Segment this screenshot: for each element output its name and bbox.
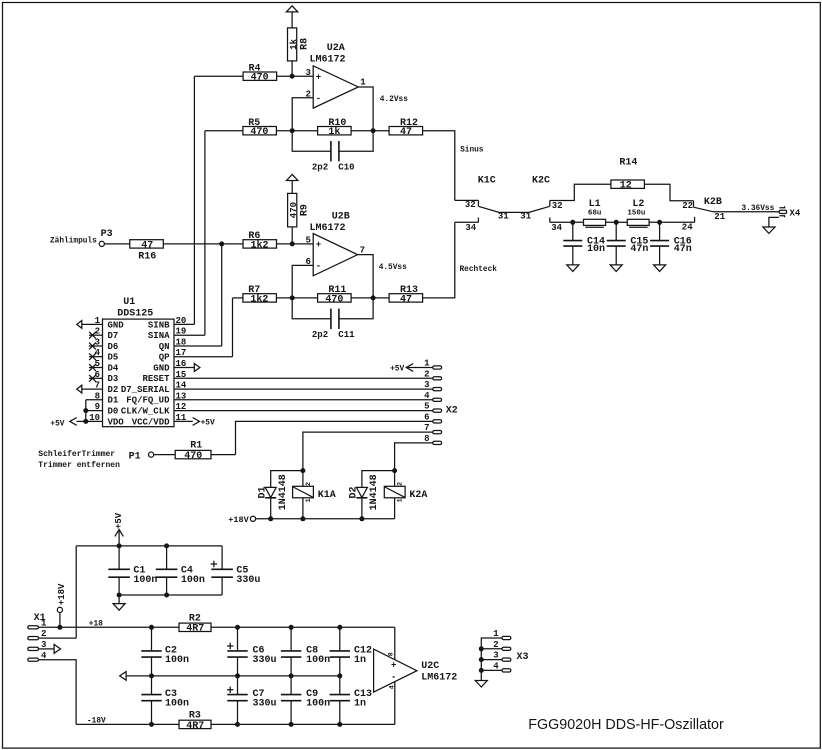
capacitor C11 with loop [292,298,373,340]
svg-text:-: - [391,672,396,682]
svg-text:3.36Vss: 3.36Vss [742,205,775,213]
node K1A rail [300,516,305,521]
node K2A top [392,468,397,473]
svg-text:100n: 100n [306,655,330,666]
capacitor C16 [650,222,692,265]
svg-text:QP: QP [159,353,170,363]
wire U2A output to R10 row [358,87,373,131]
svg-text:K2B: K2B [704,197,722,208]
svg-text:SINA: SINA [148,331,170,341]
svg-text:470: 470 [250,127,268,138]
svg-text:+18: +18 [89,621,103,629]
svg-text:34: 34 [551,223,562,233]
wire QN vertical [221,244,223,346]
wire QP vertical [232,298,234,357]
svg-text:32: 32 [465,200,476,210]
svg-text:330u: 330u [236,575,260,586]
U1 right pin numbers [176,316,187,423]
svg-text:5: 5 [424,402,429,412]
op-amp U2C [374,627,458,724]
svg-text:47n: 47n [630,244,648,255]
connector X3 [493,629,528,672]
svg-text:X3: X3 [517,652,529,663]
resistor R10 [318,118,390,138]
X2 pin7 wire to relay K1A [303,432,433,471]
svg-text:31: 31 [520,211,531,221]
node D1 rail [268,516,273,521]
svg-text:R1: R1 [190,441,202,452]
node C7 bottom [235,722,240,727]
diode D1 1N4148 [257,471,303,519]
+18 row [39,621,395,629]
ground C16 [654,265,666,272]
svg-text:D3: D3 [108,374,119,384]
U1 pin 2 stub nc [89,332,103,339]
wire R7 left from QP [233,297,243,299]
svg-text:CLK/W_CLK: CLK/W_CLK [121,407,170,417]
node R10/R12/C10 [371,128,376,133]
svg-text:R8: R8 [300,38,311,50]
inductor L1 [584,199,606,228]
node C1 rail [117,543,122,548]
svg-text:VDO: VDO [108,417,125,427]
svg-text:D5: D5 [108,353,119,363]
svg-text:4R7: 4R7 [186,624,204,635]
node C9 bottom [289,722,294,727]
svg-text:C10: C10 [338,162,354,172]
ground below C1 [113,595,125,610]
svg-text:P3: P3 [101,229,113,240]
svg-text:SINB: SINB [148,320,170,330]
svg-text:4.2Vss: 4.2Vss [380,96,408,104]
svg-text:470: 470 [184,451,202,462]
switch K2C [529,176,611,233]
svg-text:-: - [316,94,321,104]
svg-text:+: + [391,661,396,671]
svg-text:1k2: 1k2 [250,293,268,305]
svg-text:4: 4 [388,685,395,689]
node C4 rail [164,543,169,548]
resistor R14 [611,158,694,201]
terminal P1 [38,450,175,470]
U1 pin 3 stub nc [89,343,103,350]
svg-text:K2C: K2C [532,176,550,187]
svg-text:-: - [316,262,321,272]
svg-text:1: 1 [305,498,312,502]
svg-text:K1A: K1A [318,490,336,501]
svg-text:1k: 1k [289,38,299,49]
svg-text:330u: 330u [253,699,277,710]
node R7/C11/U2B- [290,295,295,300]
+5V up arrow at top rail [114,512,124,546]
-18V row [76,717,395,725]
svg-text:8: 8 [388,652,395,656]
node R11/R13/C11 [371,295,376,300]
node QN tap [219,241,224,246]
connector X4 [779,206,801,218]
wire R4 left from SINB [194,75,243,77]
svg-text:C11: C11 [338,330,355,340]
svg-text:R9: R9 [300,204,311,216]
resistor R12 [389,118,423,138]
svg-text:D0: D0 [108,407,119,417]
U1 pin 16 GND stub with right arrow [174,364,200,372]
wire +5V net to X2-6 [236,421,433,454]
svg-text:470: 470 [251,73,269,84]
svg-text:24: 24 [682,222,693,232]
node C3 bottom [149,722,154,727]
svg-text:1N4148: 1N4148 [278,474,289,510]
node C16 [657,220,662,225]
svg-text:4: 4 [424,391,430,401]
switch K1C [455,176,532,233]
svg-text:100n: 100n [306,699,330,710]
svg-text:7: 7 [360,245,365,255]
supply arrow VCC above R8 [286,6,297,28]
op-amp U2A [306,43,367,108]
node R6/R9/U2B+ [290,241,295,246]
svg-text:+: + [316,72,321,82]
X1 pin4 wire to -18V [39,660,77,725]
svg-text:+: + [316,240,321,250]
svg-text:10n: 10n [587,244,605,255]
svg-text:330u: 330u [253,655,277,666]
capacitor C5 polarized [211,546,261,595]
svg-text:QN: QN [159,342,170,352]
svg-text:X4: X4 [790,209,801,219]
svg-text:-18V: -18V [87,717,106,725]
svg-text:32: 32 [552,201,563,211]
relay coil K2A [384,471,427,519]
resistor R16 [130,240,243,263]
svg-text:+18V: +18V [57,583,67,605]
svg-text:GND: GND [153,363,170,373]
svg-text:2: 2 [305,482,312,486]
svg-text:34: 34 [465,223,476,233]
mid GND rail with left arrow [120,672,340,681]
svg-text:D1: D1 [108,396,119,406]
capacitor C12 [330,627,372,676]
svg-text:470: 470 [325,294,343,305]
+5V top rail [76,545,222,547]
U1 pin 12 CLK/W_CLK wire to X2-5 [174,410,433,412]
svg-text:1k: 1k [328,126,340,138]
svg-text:3: 3 [424,380,429,390]
switch K2B [682,197,779,222]
svg-text:47: 47 [400,294,412,305]
op-amp U2B [306,212,366,276]
U1 pin 11 VCC/VDD +5V arrow [174,418,215,428]
wire rail to X1 pin2 [75,546,77,638]
X2 pin8 wire to relay K2A [395,443,433,471]
capacitor C4 [156,546,205,595]
wire U2B output to R11 row [357,255,373,298]
svg-text:K2A: K2A [409,490,427,501]
resistor R5 [243,118,318,138]
capacitor C8 [281,627,330,676]
U1 pin 14 D7_SERIAL wire to X2-3 [174,388,433,390]
svg-text:1k2: 1k2 [251,239,269,251]
svg-text:LM6172: LM6172 [310,223,346,234]
terminal P3 Zaehlimpuls [50,229,130,246]
U1 pin 1 GND stub with left arrow [77,321,103,329]
node R5/C10/U2A- [290,128,295,133]
U1 pin 6 stub nc [89,375,103,382]
svg-text:2p2: 2p2 [312,162,328,172]
svg-text:R16: R16 [138,252,156,263]
U1 pin 5 stub nc [89,364,103,371]
svg-text:12: 12 [620,181,632,192]
capacitor C1 [108,546,157,595]
svg-text:68u: 68u [588,209,602,217]
capacitor C14 [563,222,605,265]
svg-text:R14: R14 [619,158,637,169]
svg-text:100n: 100n [165,655,189,666]
diode D2 1N4148 [349,471,395,519]
svg-text:RESET: RESET [142,374,170,384]
node D2 rail [359,516,364,521]
U1 pin 20 SINB stub [174,323,194,325]
svg-text:D2: D2 [108,385,119,395]
capacitor C2 [141,627,189,676]
capacitor C10 with loop [292,131,373,173]
svg-text:4R7: 4R7 [186,721,204,732]
svg-text:1n: 1n [354,699,366,710]
resistor R7 [243,285,318,305]
U1 pin 17 QP stub [174,356,233,358]
wire U2A pin2 [292,98,313,131]
ground C15 [610,265,622,272]
svg-text:470: 470 [289,202,299,218]
capacitor C9 [281,676,330,725]
svg-text:L2: L2 [632,199,644,210]
svg-text:1: 1 [360,78,366,88]
node C14 [570,220,575,225]
U1 left pin numbers [89,316,100,423]
resistor R1 [175,441,235,463]
svg-text:1: 1 [397,498,404,502]
svg-text:SchleiferTrimmer: SchleiferTrimmer [38,450,115,459]
U1 pin 15 RESET wire to X2-2 [174,377,433,379]
bottom rail of C1-C5 [119,594,222,596]
svg-text:1N4148: 1N4148 [369,474,380,510]
svg-text:47: 47 [400,127,412,138]
svg-text:Rechteck: Rechteck [460,266,498,274]
X3 tie wires [479,638,502,681]
svg-text:+5V: +5V [50,421,64,429]
capacitor C6 polarized [227,627,277,676]
connector X2 [424,359,458,445]
svg-text:U2A: U2A [327,43,345,54]
X1 pin3 wire with right arrow [39,645,61,654]
IC U1 DDS125 body [103,297,175,427]
X1 pin2 wire [39,637,77,639]
svg-text:6: 6 [424,412,429,422]
svg-text:2p2: 2p2 [312,330,328,340]
ground at X4 [763,217,779,233]
node C8/C9 mid [289,673,294,678]
svg-text:150u: 150u [627,209,645,217]
capacitor C7 polarized [227,676,277,725]
resistor R4 [243,63,313,83]
terminal +18V at X1 [57,583,67,627]
svg-text:47: 47 [141,240,153,251]
svg-text:X2: X2 [446,406,458,417]
node C8 top [289,625,294,630]
svg-text:4.5Vss: 4.5Vss [379,264,407,272]
capacitor C13 [330,676,372,725]
node C12 top [337,625,342,630]
resistor R8 [288,28,311,76]
ground C14 [567,265,579,272]
svg-text:L1: L1 [589,199,601,210]
resistor R11 [318,285,390,305]
svg-text:D6: D6 [108,342,119,352]
svg-text:Trimmer entfernen: Trimmer entfernen [38,461,120,470]
svg-text:100n: 100n [181,575,205,586]
wire R5 left from SINA [205,130,243,132]
node C2/C3 mid [149,673,154,678]
svg-text:D4: D4 [108,363,119,373]
svg-text:U2C: U2C [421,661,439,672]
svg-text:D7: D7 [108,331,119,341]
svg-text:GND: GND [108,320,125,330]
node K1A top [300,468,305,473]
U1 pin 7 D2 stub with left arrow [77,385,103,393]
resistor R2 [179,614,211,635]
U1 left pin names [108,320,125,427]
svg-text:LM6172: LM6172 [310,54,346,65]
svg-text:D7_SERIAL: D7_SERIAL [121,385,170,395]
svg-text:1n: 1n [354,655,366,666]
node R4/R8/U2A+ [290,74,295,79]
svg-text:+5V: +5V [201,420,215,428]
U1 pin 19 SINA stub [174,334,205,336]
filter rail from K2C-34 [550,217,695,232]
relay coil K1A [293,471,336,519]
connector X1 [28,613,47,661]
svg-text:+5V: +5V [390,366,404,374]
svg-text:U2B: U2B [332,212,350,223]
svg-text:U1: U1 [123,297,135,308]
U1 pins 8-10 tie to +5V [50,400,102,429]
svg-text:D1: D1 [257,486,268,498]
svg-text:D2: D2 [349,486,360,498]
svg-text:22: 22 [682,201,693,211]
svg-text:DDS125: DDS125 [117,309,153,320]
svg-text:2: 2 [424,369,429,379]
svg-text:FQ/FQ_UD: FQ/FQ_UD [126,396,170,406]
svg-text:21: 21 [714,212,725,222]
svg-text:3: 3 [306,68,311,78]
terminal +18V relay rail [228,515,394,525]
resistor R6 [243,231,313,251]
svg-text:2: 2 [397,482,404,486]
supply arrow VCC above R9 [287,174,298,193]
node C1 gnd [117,593,122,598]
wire SINA vertical [204,131,206,336]
node C6 top [235,625,240,630]
wire SINB vertical [193,76,195,324]
svg-text:LM6172: LM6172 [421,673,457,684]
resistor R9 [288,193,311,244]
svg-text:31: 31 [498,211,509,221]
svg-text:K1C: K1C [478,176,496,187]
node C13 bottom [337,722,342,727]
svg-text:+18V: +18V [228,515,249,525]
svg-text:P1: P1 [129,451,141,462]
svg-text:47n: 47n [674,244,692,255]
wire R13 to Rechteck line [423,222,455,298]
X2 pin1 +5V arrow [390,364,433,374]
node C4 gnd [164,593,169,598]
wire R12 to Sinus line [423,131,455,201]
node C6/C7 mid [235,673,240,678]
svg-text:Sinus: Sinus [460,146,484,154]
inductor L2 [627,199,649,228]
U1 pin 18 QN stub [174,345,222,347]
capacitor C15 [607,222,649,265]
svg-text:VCC/VDD: VCC/VDD [132,417,170,427]
wire U2B pin6 [292,265,313,298]
resistor R3 [179,711,211,732]
node C2 top [149,625,154,630]
node C12/C13 mid [337,673,342,678]
ground at X3 [475,681,487,688]
svg-text:+5V: +5V [114,512,124,529]
svg-text:100n: 100n [133,575,157,586]
U1 pin 4 stub nc [89,353,103,360]
svg-text:Zählimpuls: Zählimpuls [50,237,97,245]
capacitor C3 [141,676,189,725]
svg-text:5: 5 [306,236,311,246]
node +18V terminal [57,625,62,630]
svg-text:FGG9020H DDS-HF-Oszillator: FGG9020H DDS-HF-Oszillator [528,717,724,733]
node C15 [614,220,619,225]
svg-text:100n: 100n [165,699,189,710]
U1 right pin names [121,320,170,427]
U1 pin 13 FQ/FQ_UD wire to X2-4 [174,399,433,401]
resistor R13 [389,285,423,305]
